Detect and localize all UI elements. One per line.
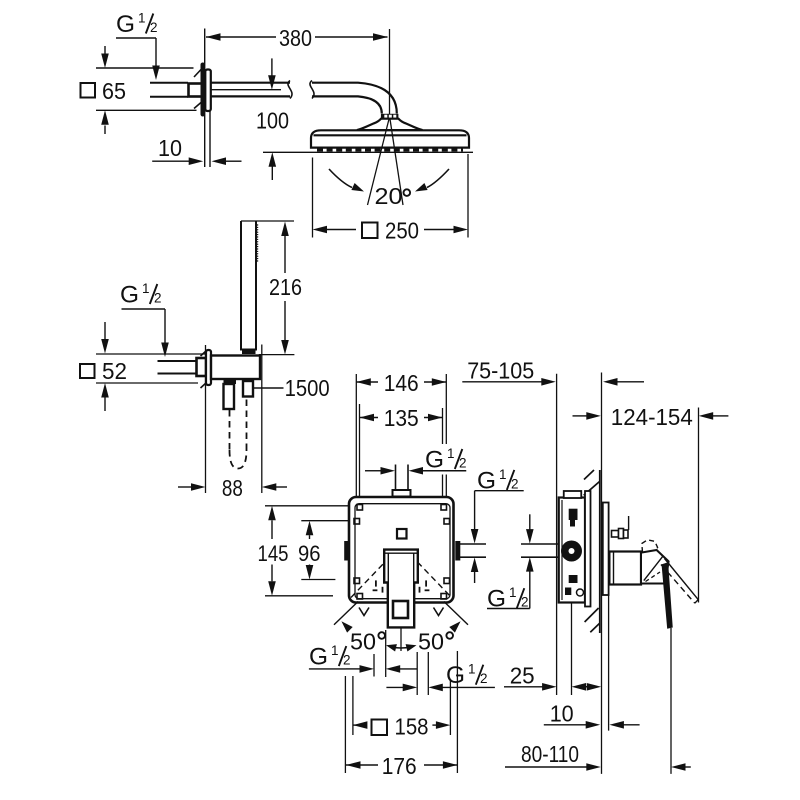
- svg-text:2: 2: [150, 20, 158, 35]
- svg-text:176: 176: [382, 753, 417, 779]
- svg-text:1: 1: [447, 446, 455, 461]
- svg-text:G: G: [120, 282, 139, 309]
- svg-text:96: 96: [298, 541, 321, 566]
- svg-text:2: 2: [459, 456, 467, 471]
- svg-text:100: 100: [256, 108, 289, 134]
- svg-text:1: 1: [138, 11, 146, 26]
- svg-text:2: 2: [521, 595, 529, 610]
- svg-text:75-105: 75-105: [467, 358, 534, 384]
- svg-text:158: 158: [395, 714, 429, 740]
- svg-text:52: 52: [102, 358, 127, 384]
- svg-text:1: 1: [509, 585, 517, 600]
- svg-text:2: 2: [511, 476, 519, 491]
- svg-text:1: 1: [331, 643, 339, 658]
- svg-text:146: 146: [384, 370, 419, 396]
- svg-text:2: 2: [343, 653, 351, 668]
- svg-text:2: 2: [154, 291, 162, 306]
- svg-text:G: G: [446, 662, 465, 689]
- svg-text:1: 1: [142, 281, 150, 296]
- svg-text:G: G: [309, 644, 328, 671]
- svg-text:135: 135: [384, 405, 419, 431]
- svg-text:50: 50: [418, 629, 444, 655]
- svg-text:216: 216: [269, 274, 302, 300]
- svg-text:250: 250: [385, 218, 419, 244]
- svg-text:10: 10: [158, 135, 182, 161]
- svg-text:25: 25: [510, 662, 535, 688]
- svg-text:65: 65: [102, 78, 126, 104]
- svg-text:124-154: 124-154: [611, 404, 693, 430]
- svg-text:145: 145: [258, 541, 289, 566]
- svg-text:1: 1: [468, 662, 476, 677]
- svg-text:80-110: 80-110: [521, 741, 579, 767]
- svg-text:1500: 1500: [285, 375, 330, 401]
- svg-text:G: G: [116, 11, 135, 38]
- svg-text:20: 20: [375, 183, 403, 209]
- svg-text:88: 88: [222, 475, 243, 501]
- svg-text:G: G: [425, 447, 444, 474]
- svg-text:10: 10: [550, 700, 574, 726]
- svg-text:2: 2: [480, 671, 488, 686]
- svg-text:50: 50: [350, 629, 376, 655]
- svg-text:1: 1: [499, 467, 507, 482]
- svg-text:380: 380: [279, 25, 312, 51]
